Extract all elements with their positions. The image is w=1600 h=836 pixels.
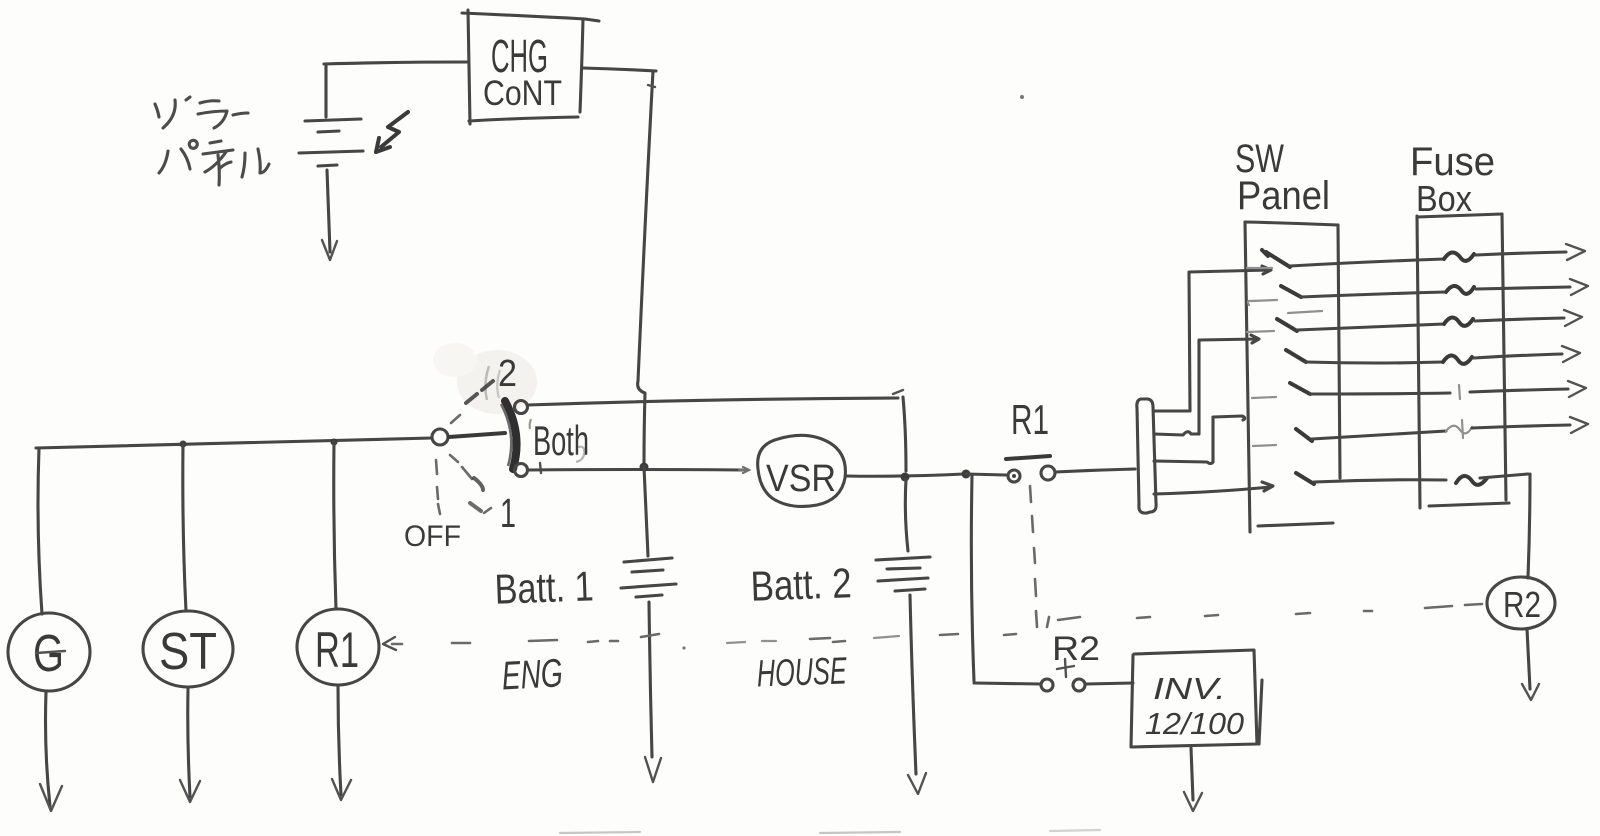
wire to R1 relay [966, 474, 1006, 475]
svg-text:Box: Box [1416, 178, 1472, 219]
arrow out 5 [1568, 381, 1586, 397]
wire CHG to main vertical [583, 68, 656, 71]
contact arc (crescent) [505, 401, 517, 469]
fuse F3 [1444, 317, 1473, 325]
G meter circle [8, 613, 90, 691]
svg-text:12/100: 12/100 [1145, 706, 1244, 741]
circuit line 2 [1248, 300, 1277, 305]
SW panel box [1245, 222, 1250, 532]
battery 1 lower lead + arrow [649, 602, 652, 757]
speck [1020, 95, 1024, 99]
faint marks bottom edge [560, 832, 640, 833]
battery 2 plates [876, 557, 930, 560]
svg-text:Panel: Panel [1237, 174, 1330, 218]
relay R1 contact (right) [1041, 466, 1055, 480]
svg-text:CoNT: CoNT [483, 74, 562, 113]
R2 arrow down [1527, 629, 1530, 689]
svg-text:R1: R1 [315, 622, 359, 678]
ST arrow down [188, 688, 190, 797]
VSR circle [758, 435, 846, 506]
R1 branch wire [334, 442, 336, 609]
svg-text:Batt. 2: Batt. 2 [750, 559, 853, 609]
svg-text:VSR: VSR [766, 458, 836, 500]
terminal 2 [515, 401, 528, 414]
lever [449, 433, 505, 437]
solar panel label (Japanese katakana, drawn strokes) [155, 97, 269, 185]
R2 plus mark [1057, 659, 1074, 677]
svg-text:Batt. 1: Batt. 1 [494, 562, 595, 612]
svg-text:2: 2 [498, 353, 517, 395]
sun arrow (zigzag) [381, 112, 408, 147]
arrow out 2 [1570, 279, 1588, 295]
left bus wire to switch pivot [36, 438, 432, 448]
ground lead + arrow below solar [327, 170, 330, 252]
junction blob at vertical/lower wire [640, 463, 649, 472]
SECTION-MAIN [971, 396, 1262, 811]
relay R1 contact (left, filled) [1008, 470, 1020, 482]
step wire D [1154, 482, 1273, 494]
circuit line 3 [1247, 331, 1274, 332]
dashed ENG/HOUSE divider with left arrow [383, 637, 396, 650]
wire terminal1 right (lower, to VSR) [528, 468, 742, 472]
circuit line 5 [1252, 397, 1276, 398]
G branch wire [38, 448, 42, 614]
fuse F2 [1446, 286, 1474, 294]
corner down to VSR line [903, 397, 906, 471]
svg-text:INV.: INV. [1153, 671, 1226, 706]
relay R2 contact (right) [1073, 679, 1085, 691]
circuit line 1 [1247, 267, 1272, 269]
house feed down-wire [971, 476, 974, 681]
SECTION-RIGHT [1137, 137, 1588, 532]
battery 2 lead down [905, 479, 908, 551]
SECTION-SWITCH [8, 438, 432, 811]
eraser smudge near battery switch [457, 350, 537, 414]
Fuse Box box [1417, 216, 1420, 508]
dashed lever position marks (to 1) [450, 455, 458, 462]
battery selector switch: pivot [432, 429, 448, 445]
dashed mark (to OFF, below pivot) [436, 460, 437, 474]
arrow out 4 [1562, 346, 1580, 362]
arrow out 3 [1564, 310, 1582, 326]
svg-text:OFF: OFF [404, 520, 461, 553]
fuse F6 (faint) [1446, 426, 1472, 434]
battery 1 lead down [644, 467, 648, 556]
battery 2 lower lead + arrow [910, 595, 916, 774]
main vertical wire down from CHG [638, 71, 653, 466]
terminal 1/Both [515, 464, 528, 477]
fuse F4 [1443, 355, 1472, 363]
circuit line 7 [1296, 473, 1314, 484]
SECTION-LEFTBUS [494, 435, 1006, 794]
house feed to R2 switch [974, 683, 1041, 684]
wire R2 to INV [1086, 683, 1133, 684]
SECTION-SOLAR [404, 343, 906, 553]
wire VSR to junctions [846, 474, 964, 476]
circuit line 6 [1253, 445, 1276, 446]
svg-text:ENG: ENG [501, 651, 564, 698]
step wire A: busbar to panel line 1 [1154, 266, 1271, 411]
relay R2 contact (left) [1041, 679, 1053, 691]
wire solar to CHG CONT [324, 62, 468, 64]
fuse F5 (faint) [1459, 385, 1460, 399]
INV box [1131, 650, 1262, 747]
ghost eraser marks near arc [485, 366, 489, 400]
battery 1 plates [624, 558, 672, 562]
busbar (capsule) [1137, 399, 1156, 513]
svg-text:HOUSE: HOUSE [756, 650, 848, 695]
junction at ST branch [180, 441, 187, 448]
svg-text:R2: R2 [1503, 584, 1541, 625]
svg-text:Both: Both [533, 417, 589, 464]
dashed lever position marks (to 2, smudged dark) [466, 394, 477, 403]
circuit line 4 [1286, 350, 1306, 362]
small arrow before VSR [739, 467, 749, 473]
dashed control R1 to R2 [1030, 486, 1031, 502]
INV arrow down [1191, 748, 1193, 800]
R1 meter arrow down [338, 686, 341, 795]
ST meter circle [143, 611, 233, 687]
svg-text:ST: ST [159, 623, 217, 681]
step wire C [1154, 416, 1245, 464]
wire terminal2 right (upper) [527, 398, 898, 405]
svg-text:R1: R1 [1011, 396, 1049, 443]
junction dot before R1 relay [962, 470, 971, 479]
step wire B: busbar to panel line 3 [1154, 335, 1259, 435]
junction blob upper-wire corner [901, 473, 910, 482]
svg-text:1: 1 [500, 490, 516, 536]
junction at R1 branch [331, 439, 338, 446]
wire line7 corner down to R2 [1528, 474, 1530, 578]
G arrow down [46, 692, 51, 806]
fuse F7 [1456, 476, 1487, 485]
SECTION-PANEL [383, 474, 1555, 833]
arrow out 6 [1570, 417, 1588, 433]
wire relay R1 to busbar [1055, 469, 1135, 472]
R1 meter circle [297, 609, 379, 685]
svg-text:R2: R2 [1052, 630, 1100, 668]
R2 circuit circle [1487, 577, 1555, 629]
relay R1 overbar [1006, 456, 1050, 459]
arrow out 1 [1566, 244, 1585, 260]
fuse F1 [1444, 252, 1474, 260]
ST branch wire [183, 444, 186, 611]
CHG CONT box [462, 13, 599, 21]
solar panel symbol (battery-style plates) [324, 64, 327, 117]
